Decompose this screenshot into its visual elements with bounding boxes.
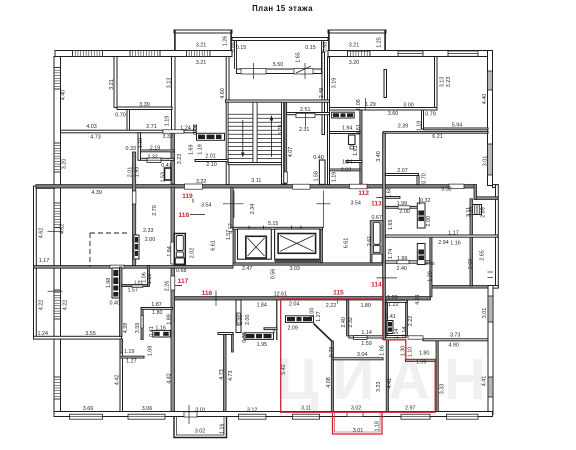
svg-text:1.29: 1.29 [365,102,376,108]
svg-text:1.17: 1.17 [39,258,50,264]
svg-text:3.19: 3.19 [332,78,338,89]
svg-text:4.90: 4.90 [448,343,459,349]
svg-text:4.22: 4.22 [38,300,44,311]
svg-text:0.33: 0.33 [126,146,137,152]
svg-text:0.56: 0.56 [271,269,277,280]
svg-text:1.24: 1.24 [180,125,191,131]
svg-text:3.11: 3.11 [251,178,261,184]
svg-text:1.65: 1.65 [296,52,302,63]
svg-text:2.00: 2.00 [238,315,244,326]
svg-text:1.25: 1.25 [377,37,383,48]
svg-text:3.20: 3.20 [62,159,68,170]
svg-text:112: 112 [358,190,369,197]
svg-text:3.22: 3.22 [196,179,207,185]
svg-text:0.66: 0.66 [323,42,329,53]
svg-text:119: 119 [182,193,193,200]
svg-text:0.15: 0.15 [305,45,316,51]
svg-text:3.54: 3.54 [350,201,361,207]
svg-text:2.40: 2.40 [397,266,408,272]
svg-text:2.10: 2.10 [206,162,217,168]
svg-text:1.26: 1.26 [223,36,229,47]
svg-text:3.32: 3.32 [441,186,452,192]
svg-text:5.42: 5.42 [281,364,287,375]
svg-text:4.41: 4.41 [387,378,393,389]
svg-text:1.19: 1.19 [165,116,171,127]
svg-text:1.94: 1.94 [342,126,353,132]
svg-text:0.70: 0.70 [422,173,428,184]
svg-text:2.49: 2.49 [319,88,325,99]
svg-text:1.27: 1.27 [316,311,322,322]
svg-text:0.68: 0.68 [176,268,187,274]
svg-text:6.76: 6.76 [278,124,284,135]
svg-text:3.21: 3.21 [196,60,207,66]
svg-text:2.19: 2.19 [150,146,161,152]
svg-text:2.34: 2.34 [250,204,256,215]
svg-text:1.59: 1.59 [416,360,427,366]
svg-text:2.32: 2.32 [147,155,158,161]
svg-text:1.16: 1.16 [450,241,461,247]
svg-text:1.08: 1.08 [148,346,154,357]
svg-text:113: 113 [371,200,382,207]
svg-text:1.94: 1.94 [342,160,353,166]
svg-text:3.21: 3.21 [349,43,360,49]
svg-text:2.32: 2.32 [348,317,354,328]
svg-text:2.40: 2.40 [341,317,347,328]
svg-text:2.14: 2.14 [402,327,408,338]
svg-text:3.02: 3.02 [195,429,206,435]
svg-text:2.71: 2.71 [146,124,157,130]
svg-text:1.17: 1.17 [448,230,459,236]
svg-text:1.80: 1.80 [152,310,163,316]
svg-text:2.02: 2.02 [190,248,196,259]
svg-text:2.04: 2.04 [289,302,300,308]
svg-text:5.50: 5.50 [273,62,284,68]
svg-text:4.57: 4.57 [229,223,235,234]
svg-text:0.61: 0.61 [356,124,362,135]
svg-text:2.26: 2.26 [164,281,170,292]
svg-text:6.21: 6.21 [432,134,443,140]
svg-text:3.23: 3.23 [446,77,452,88]
svg-text:3.12: 3.12 [247,407,258,413]
svg-text:1.30: 1.30 [400,346,406,357]
svg-text:0.15: 0.15 [236,45,247,51]
svg-text:0.40: 0.40 [313,155,324,161]
svg-text:2.39: 2.39 [398,123,409,129]
svg-text:0.40: 0.40 [110,301,121,307]
svg-text:1.19: 1.19 [124,349,135,355]
svg-text:3.73: 3.73 [450,333,461,339]
svg-text:4.28: 4.28 [123,323,129,334]
svg-text:2.22: 2.22 [326,303,337,309]
svg-text:1.19: 1.19 [417,121,423,132]
svg-text:0.41: 0.41 [161,163,172,169]
svg-text:1.91: 1.91 [353,145,359,156]
svg-text:3.13: 3.13 [167,78,173,89]
svg-text:115: 115 [333,290,344,297]
svg-text:4.73: 4.73 [228,371,234,382]
svg-text:1.65: 1.65 [388,219,394,230]
svg-text:1.80: 1.80 [419,351,430,357]
svg-text:0.67: 0.67 [371,215,382,221]
svg-text:0.79: 0.79 [425,112,436,118]
svg-text:3.21: 3.21 [109,79,115,90]
svg-text:1.59: 1.59 [361,341,372,347]
svg-text:1.16: 1.16 [220,424,226,435]
svg-text:0.33: 0.33 [242,332,248,343]
svg-text:1.19: 1.19 [332,172,338,183]
svg-text:1.80: 1.80 [360,303,371,309]
svg-text:1.20: 1.20 [428,271,434,282]
svg-text:1.19: 1.19 [198,144,204,155]
svg-text:1.10: 1.10 [407,347,413,358]
svg-text:4.07: 4.07 [288,147,294,158]
svg-text:1.69: 1.69 [189,145,195,156]
svg-text:118: 118 [178,212,189,219]
svg-text:2.01: 2.01 [128,167,134,178]
svg-text:1.74: 1.74 [388,249,394,260]
svg-text:1.57: 1.57 [127,288,138,294]
svg-text:1.95: 1.95 [257,342,268,348]
svg-text:2.00: 2.00 [426,216,432,227]
svg-text:2.92: 2.92 [468,259,474,270]
svg-text:4.62: 4.62 [60,224,66,235]
svg-text:1.53: 1.53 [161,172,167,183]
svg-text:4.40: 4.40 [61,90,67,101]
svg-text:4.21: 4.21 [415,294,421,305]
svg-text:5.94: 5.94 [452,123,463,129]
svg-text:4.08: 4.08 [326,377,332,388]
svg-text:2.61: 2.61 [367,236,373,247]
svg-text:1.24: 1.24 [38,331,49,337]
svg-text:3.01: 3.01 [353,428,364,434]
svg-text:4.22: 4.22 [63,300,69,311]
svg-text:1.84: 1.84 [256,303,267,309]
svg-text:3.01: 3.01 [195,407,206,413]
svg-text:3.11: 3.11 [466,207,472,217]
svg-text:6.61: 6.61 [344,238,350,249]
svg-text:3.20: 3.20 [349,60,360,66]
svg-text:3.01: 3.01 [482,308,488,319]
svg-text:3.03: 3.03 [289,266,300,272]
svg-text:3.23: 3.23 [177,154,183,165]
svg-text:3.59: 3.59 [135,323,141,334]
svg-text:6.61: 6.61 [211,240,217,251]
svg-text:0.08: 0.08 [356,99,362,110]
svg-text:2.01: 2.01 [205,153,216,159]
svg-text:План 15 этажа: План 15 этажа [252,4,313,13]
svg-text:1.29: 1.29 [387,295,398,301]
svg-text:3.55: 3.55 [85,331,96,337]
svg-text:2.70: 2.70 [152,205,158,216]
svg-text:3.13: 3.13 [440,77,446,88]
svg-text:2.85: 2.85 [481,207,487,218]
svg-text:0.06: 0.06 [425,261,435,267]
svg-text:1.84: 1.84 [167,246,173,257]
svg-text:1.58: 1.58 [313,171,319,182]
svg-text:3.32: 3.32 [163,134,174,140]
svg-text:1.81: 1.81 [134,280,143,285]
svg-text:0.06: 0.06 [193,124,199,135]
svg-text:0.78: 0.78 [329,347,335,358]
svg-text:3.06: 3.06 [142,406,153,412]
svg-text:1.27: 1.27 [126,358,137,364]
svg-text:3.04: 3.04 [357,352,368,358]
svg-text:0.32: 0.32 [420,198,431,204]
svg-text:3.01: 3.01 [483,156,489,167]
svg-text:3.23: 3.23 [376,381,382,392]
svg-text:1.22: 1.22 [388,302,399,308]
svg-text:1.19: 1.19 [138,138,144,149]
svg-text:0.41: 0.41 [385,314,396,320]
svg-text:2.47: 2.47 [242,266,253,272]
svg-text:1.87: 1.87 [151,302,162,308]
svg-text:0.70: 0.70 [115,113,126,119]
svg-text:1.15: 1.15 [147,274,153,285]
svg-text:4.60: 4.60 [220,88,226,99]
svg-text:3.66: 3.66 [83,406,94,412]
svg-text:1.00: 1.00 [309,308,315,319]
svg-text:4.39: 4.39 [91,190,102,196]
svg-text:2.00: 2.00 [399,209,410,215]
svg-text:2.51: 2.51 [300,107,311,113]
svg-text:3.54: 3.54 [201,203,212,209]
svg-text:1.06: 1.06 [379,345,385,356]
svg-text:1.98: 1.98 [106,278,112,289]
svg-text:0.41: 0.41 [149,326,155,337]
svg-text:3.60: 3.60 [388,111,399,117]
svg-text:2.97: 2.97 [405,405,416,411]
svg-text:2.00: 2.00 [145,237,156,243]
svg-text:1.89: 1.89 [167,314,173,325]
svg-text:4.03: 4.03 [86,124,97,130]
svg-text:116: 116 [202,290,213,297]
svg-text:3.02: 3.02 [351,405,362,411]
svg-text:4.42: 4.42 [114,375,120,386]
svg-text:3.21: 3.21 [196,43,207,49]
svg-text:2.94: 2.94 [438,240,449,246]
svg-text:117: 117 [178,278,189,285]
svg-text:2.22: 2.22 [408,316,414,327]
svg-text:4.40: 4.40 [482,94,488,105]
svg-text:3.00: 3.00 [403,102,414,108]
svg-text:5.15: 5.15 [268,221,279,227]
svg-text:2.31: 2.31 [299,127,310,133]
svg-text:1.16: 1.16 [155,325,166,331]
svg-text:3.33: 3.33 [439,384,445,395]
svg-text:1.99: 1.99 [397,201,408,207]
svg-text:1.93: 1.93 [135,167,141,178]
svg-text:2.33: 2.33 [143,228,154,234]
svg-text:2.07: 2.07 [397,168,408,174]
svg-text:114: 114 [371,281,382,288]
svg-text:1.68: 1.68 [387,187,393,198]
svg-text:1.99: 1.99 [397,256,408,262]
svg-text:4.73: 4.73 [219,369,225,380]
svg-text:2.00: 2.00 [245,315,251,326]
svg-text:12.61: 12.61 [274,291,288,297]
svg-text:2.65: 2.65 [479,250,485,261]
svg-text:4.42: 4.42 [166,373,172,384]
svg-text:4.62: 4.62 [39,228,45,239]
svg-text:0.66: 0.66 [231,42,237,53]
svg-text:2.03: 2.03 [341,168,352,174]
svg-text:1.14: 1.14 [394,329,400,340]
svg-text:1.14: 1.14 [361,330,372,336]
svg-text:4.73: 4.73 [90,134,101,140]
svg-text:3.40: 3.40 [376,151,382,162]
svg-text:4.41: 4.41 [481,376,487,387]
svg-text:3.39: 3.39 [139,102,150,108]
svg-text:2.09: 2.09 [287,325,298,331]
svg-text:3.11: 3.11 [301,405,311,411]
svg-text:1.18: 1.18 [375,421,381,432]
